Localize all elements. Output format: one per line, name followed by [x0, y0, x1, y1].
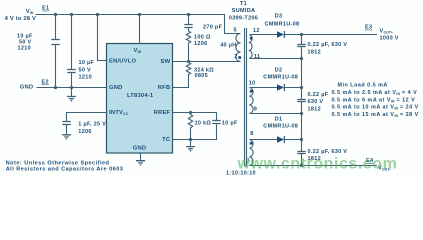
svg-text:D3: D3: [275, 14, 283, 20]
svg-text:0.5 mA to 10 mA at VIN = 24 V: 0.5 mA to 10 mA at VIN = 24 V: [332, 105, 419, 111]
svg-text:RREF: RREF: [154, 110, 171, 116]
wire SW node: [173, 61, 241, 63]
svg-text:CMMR1U-08: CMMR1U-08: [263, 74, 298, 80]
svg-text:All Resistors and Capacitors A: All Resistors and Capacitors Are 0603: [6, 167, 124, 173]
transformer T1 labels: [229, 1, 258, 21]
wire Vin top rail: [36, 15, 241, 34]
svg-text:10 kΩ: 10 kΩ: [195, 120, 212, 126]
svg-text:0.5 mA to 2.5 mA at VIN = 4 V: 0.5 mA to 2.5 mA at VIN = 4 V: [332, 90, 418, 96]
node GND rail / C2: [70, 86, 73, 89]
wire secondary row 1 (pin 12 to D3): [250, 34, 278, 36]
svg-text:0.22 µF, 630 V: 0.22 µF, 630 V: [308, 42, 348, 48]
svg-text:1000 V: 1000 V: [380, 36, 399, 42]
svg-text:SUMIDA: SUMIDA: [232, 8, 256, 14]
svg-text:11: 11: [254, 54, 260, 60]
label VIN 4V to 28V: [5, 9, 37, 22]
svg-text:0805: 0805: [195, 73, 208, 79]
capacitor C4 270pF (snubber): [184, 15, 222, 32]
node Vin rail / VIN pin junction: [138, 13, 141, 16]
svg-text:GND: GND: [20, 85, 33, 91]
wire RREF node: [173, 113, 217, 121]
transformer T1 primary winding (pins 5/2): [234, 27, 242, 61]
svg-text:T1: T1: [240, 1, 247, 7]
svg-text:4 V to 28 V: 4 V to 28 V: [5, 16, 37, 22]
wire EN/UVLO: [98, 15, 107, 61]
node GND rail / C1: [54, 86, 57, 89]
svg-text:E2: E2: [42, 80, 49, 86]
transformer secondary winding W3 (pins 8/7): [247, 131, 254, 165]
ground (TC node): [186, 140, 195, 151]
node D1 cathode junction: [300, 138, 303, 141]
diode D3 CMMR1U-08: [265, 14, 302, 38]
capacitor C1 10uF 50V 1210: [17, 15, 60, 88]
wire to E3: [302, 34, 378, 36]
transformer secondary winding W2 (pins 10/9): [249, 80, 257, 113]
svg-text:9: 9: [254, 106, 257, 112]
capacitor C7 0.22uF 630V 1812 (middle): [297, 92, 328, 112]
svg-text:1 µF, 25 V: 1 µF, 25 V: [78, 122, 106, 128]
label min load block: [332, 83, 419, 118]
ground (below C3): [62, 135, 71, 139]
resistor R3 10k: [188, 113, 211, 140]
svg-text:D2: D2: [275, 67, 283, 73]
svg-text:E3: E3: [365, 25, 372, 31]
wire secondary row 3 (pin 8 to D1): [250, 139, 278, 141]
svg-text:50 V: 50 V: [79, 68, 92, 74]
svg-text:1206: 1206: [78, 129, 91, 135]
node D2 cathode junction: [300, 86, 303, 89]
ground (below C2 at GND rail): [67, 88, 76, 101]
transformer core: [245, 28, 247, 167]
svg-text:100 Ω: 100 Ω: [194, 34, 211, 40]
wire GND left rail: [37, 87, 107, 89]
svg-text:5: 5: [234, 27, 237, 33]
node top output junction: [300, 33, 303, 36]
node TC junction: [189, 138, 192, 141]
svg-text:GND: GND: [109, 85, 122, 91]
capacitor C5 10pF: [173, 120, 239, 139]
op-amp U1 LT8304-1: [107, 44, 173, 154]
svg-text:1210: 1210: [18, 45, 31, 51]
node pin11 junction: [300, 57, 303, 60]
svg-text:www.cntronics.com: www.cntronics.com: [237, 155, 398, 172]
node Vin rail / C1 junction: [54, 13, 57, 16]
label VOUT+ 1000V: [380, 29, 399, 42]
svg-text:1206: 1206: [194, 41, 207, 47]
svg-text:D1: D1: [275, 116, 283, 122]
resistor R2 324k 0805: [173, 62, 215, 88]
capacitor C6 0.22uF 630V 1812 (top): [297, 42, 347, 55]
node pin9 junction: [300, 112, 303, 115]
svg-text:8: 8: [250, 131, 253, 137]
transformer secondary winding W1 (pins 12/11): [250, 28, 261, 60]
svg-text:270 pF: 270 pF: [203, 25, 223, 31]
wire VIN pin: [139, 15, 141, 44]
diode D1 CMMR1U-08: [263, 116, 301, 143]
label note block: [6, 161, 124, 173]
capacitor C8 0.22uF 630V 1812 (bottom): [297, 149, 347, 162]
node Vin rail / C2 junction: [70, 13, 73, 16]
svg-text:0.5 mA to 6 mA at VIN = 12 V: 0.5 mA to 6 mA at VIN = 12 V: [332, 97, 416, 103]
svg-text:0.22 µF, 630 V: 0.22 µF, 630 V: [308, 149, 348, 155]
wire secondary row 2 (pin 10 to D2): [250, 87, 278, 89]
svg-text:LT8304-1: LT8304-1: [127, 93, 154, 99]
svg-text:CMMR1U-08: CMMR1U-08: [263, 123, 298, 129]
svg-text:EN/UVLO: EN/UVLO: [109, 58, 136, 64]
svg-text:1812: 1812: [308, 106, 321, 112]
svg-text:10 µF: 10 µF: [79, 60, 95, 66]
svg-text:0.22 µF: 0.22 µF: [308, 92, 329, 98]
svg-text:2: 2: [234, 54, 237, 60]
svg-text:CMMR1U-08: CMMR1U-08: [265, 21, 300, 27]
node RREF junction: [189, 111, 192, 114]
wire to E4: [250, 165, 378, 167]
wire pin 11 row: [250, 58, 302, 60]
node bottom output junction: [300, 164, 303, 167]
svg-text:1812: 1812: [308, 49, 321, 55]
ground (IC GND pin): [136, 153, 145, 165]
capacitor C3 1uF 25V 1206: [62, 113, 106, 136]
svg-text:12: 12: [253, 28, 260, 34]
svg-text:VIN: VIN: [26, 9, 34, 15]
diode D2 CMMR1U-08: [263, 67, 301, 91]
capacitor C2 10uF 50V 1210: [67, 15, 94, 88]
svg-text:TC: TC: [162, 137, 171, 143]
node Vin rail / snubber junction: [187, 13, 190, 16]
svg-text:E1: E1: [42, 6, 49, 12]
svg-text:10 pF: 10 pF: [222, 120, 238, 126]
svg-text:Min Load 0.5 mA: Min Load 0.5 mA: [338, 83, 388, 89]
svg-text:GND: GND: [133, 145, 146, 151]
svg-text:0399-T206: 0399-T206: [229, 15, 258, 21]
svg-text:0.5 mA to 15 mA at VIN = 28 V: 0.5 mA to 15 mA at VIN = 28 V: [332, 112, 419, 118]
wire pin 9 row: [250, 113, 302, 115]
svg-text:VOUT+: VOUT+: [380, 29, 394, 35]
svg-text:10: 10: [249, 80, 256, 86]
svg-text:SW: SW: [161, 59, 171, 65]
resistor R1 100 Ohm 1206 (snubber): [186, 31, 211, 62]
svg-text:1210: 1210: [79, 74, 92, 80]
node Vin rail / EN junction: [96, 13, 99, 16]
wire output stack vertical: [301, 35, 303, 166]
svg-text:RFB: RFB: [158, 85, 171, 91]
svg-text:40 µH: 40 µH: [220, 42, 236, 48]
node SW junction: [187, 60, 190, 63]
svg-text:630 V: 630 V: [308, 99, 324, 105]
